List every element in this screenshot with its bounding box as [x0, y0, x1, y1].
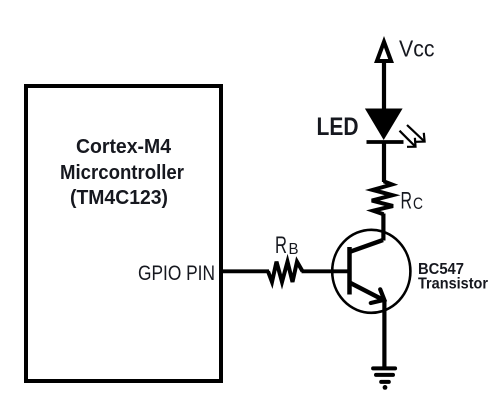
LED light arrow 2 head [407, 138, 416, 147]
svg-text:R: R [401, 188, 413, 215]
svg-text:Micrcontroller: Micrcontroller [60, 162, 184, 184]
svg-text:LED: LED [317, 113, 359, 141]
wire RC to LED [382, 142, 386, 182]
svg-text:R: R [275, 232, 287, 259]
transistor Q1 circle [332, 230, 410, 313]
ground dot [383, 385, 388, 390]
transistor base bar [347, 247, 352, 295]
svg-text:Cortex-M4: Cortex-M4 [76, 136, 172, 158]
svg-text:B: B [289, 241, 299, 258]
resistor RC [372, 181, 393, 214]
transistor emitter arrowhead [371, 289, 385, 303]
Vcc supply arrow [377, 42, 391, 61]
svg-text:C: C [413, 195, 423, 213]
svg-text:Transistor: Transistor [418, 276, 488, 293]
svg-text:GPIO PIN: GPIO PIN [138, 261, 215, 285]
LED light arrow 1 shaft [407, 125, 425, 142]
transistor collector stroke [349, 240, 383, 252]
transistor emitter stroke [350, 283, 385, 301]
wire collector up to RC [381, 214, 385, 241]
wire RB to transistor base [302, 269, 350, 273]
wire base from box to resistor RB [223, 269, 269, 273]
microcontroller box U1 [26, 86, 221, 381]
svg-text:Vcc: Vcc [399, 36, 435, 62]
svg-text:(TM4C123): (TM4C123) [70, 187, 168, 209]
resistor RB [268, 262, 303, 282]
LED D1 triangle [365, 109, 403, 141]
LED light arrow 1 head [416, 133, 425, 142]
wire emitter down to ground [382, 300, 386, 368]
LED D1 cathode bar [367, 140, 404, 144]
ground symbol bar 3 [381, 380, 389, 384]
ground symbol bar 1 [373, 366, 395, 370]
ground symbol bar 2 [376, 373, 393, 377]
wire LED to Vcc arrow [382, 60, 386, 110]
LED light arrow 2 shaft [400, 131, 416, 147]
